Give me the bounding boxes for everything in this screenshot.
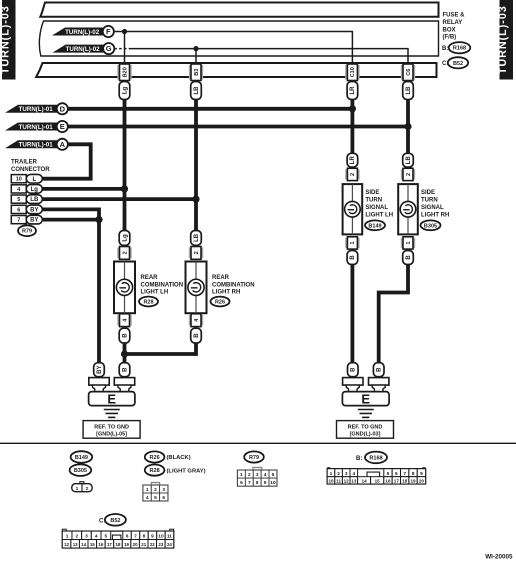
svg-text:6: 6: [240, 480, 243, 486]
label REF. TO GND [GND(L)-03]: [337, 421, 394, 439]
wire B from side light RH to right ground: [379, 265, 408, 363]
wire color B below side turn signal light RH: [403, 251, 414, 265]
wire color LR at side turn signal light LH: [347, 153, 358, 167]
wire color B below rear combination light RH: [191, 328, 202, 343]
svg-text:LB: LB: [194, 233, 200, 242]
svg-text:REF. TO GND: REF. TO GND: [348, 425, 383, 431]
svg-text:1: 1: [76, 486, 79, 492]
wire color LB at pin B3: [191, 82, 202, 100]
svg-text:1: 1: [146, 487, 149, 493]
wire color BY at ground: [94, 363, 105, 377]
svg-text:3: 3: [85, 534, 88, 540]
ground terminal left: [343, 378, 363, 392]
label REAR COMBINATION LIGHT LH: [141, 275, 184, 295]
pin B3 of fuse box: [189, 64, 203, 81]
connector ref C: B52 (view): [99, 514, 126, 526]
svg-text:3: 3: [162, 487, 165, 493]
svg-text:LIGHT LH: LIGHT LH: [365, 213, 393, 219]
junction LB: [192, 196, 199, 203]
connector view R26/R28 6-pin: [143, 482, 168, 501]
label TRAILER CONNECTOR: [11, 160, 50, 174]
svg-text:B305: B305: [424, 223, 437, 229]
wire trailer pin 5 LB to rear light RH column: [42, 197, 196, 201]
trailer connector ref R79: [18, 225, 36, 236]
svg-text:BOX: BOX: [443, 27, 456, 33]
svg-text:15: 15: [90, 542, 95, 547]
wire color B at ground: [348, 363, 359, 377]
svg-text:1: 1: [240, 472, 243, 478]
pin 1 of side turn signal light RH: [401, 237, 415, 249]
svg-text:TURN(L)-01: TURN(L)-01: [19, 106, 54, 113]
connector view R79 10-pin: [238, 467, 277, 486]
lamp side turn signal light LH B149: [343, 184, 363, 234]
wire B from rear light RH to junction: [125, 343, 197, 354]
wire F to B20 and C10: [114, 32, 352, 64]
svg-text:(LIGHT GRAY): (LIGHT GRAY): [167, 468, 206, 474]
svg-text:TURN(L)-01: TURN(L)-01: [19, 142, 54, 149]
svg-text:SIDE: SIDE: [421, 190, 435, 196]
svg-text:2: 2: [194, 251, 200, 254]
svg-text:11: 11: [336, 479, 341, 484]
wire color LB at pin C6: [403, 82, 414, 100]
svg-text:B20: B20: [122, 67, 128, 77]
svg-text:LIGHT RH: LIGHT RH: [212, 289, 240, 295]
svg-text:REAR: REAR: [141, 275, 159, 281]
ground hatch symbol: [104, 410, 120, 418]
connector ref R28 (LIGHT GRAY): [145, 465, 206, 476]
svg-text:SIGNAL: SIGNAL: [365, 205, 388, 211]
lamp rear combination light LH R28: [114, 262, 135, 314]
svg-text:B: B: [194, 333, 200, 338]
svg-text:5: 5: [105, 534, 108, 540]
junction G/B3: [193, 46, 198, 51]
svg-text:B: B: [377, 367, 383, 372]
svg-text:(F/B): (F/B): [443, 35, 457, 41]
svg-text:FUSE &: FUSE &: [443, 13, 466, 19]
connector ref B: R168 (view): [356, 452, 387, 464]
svg-text:8: 8: [256, 480, 259, 486]
svg-text:10: 10: [16, 177, 22, 183]
svg-text:8: 8: [412, 471, 415, 477]
ground hatch symbol: [358, 410, 374, 418]
separator line: [0, 442, 516, 444]
lamp rear combination light RH R26: [186, 262, 207, 314]
wire Lg from fuse box to rear combination light LH: [123, 99, 127, 231]
svg-text:6: 6: [126, 534, 129, 540]
junction F/B20: [122, 29, 127, 34]
pin 2 of rear combination light RH: [189, 247, 203, 260]
arrow tag A TURN(L)-01: [5, 139, 68, 150]
svg-text:LIGHT RH: LIGHT RH: [421, 213, 449, 219]
wire trailer pin 4 Lg to rear light LH column: [42, 187, 125, 191]
wire color B at ground: [119, 363, 130, 377]
label REF. TO GND [GND(L)-05]: [83, 421, 140, 439]
svg-text:10: 10: [328, 479, 334, 484]
svg-text:20: 20: [419, 479, 425, 484]
svg-text:TURN(L)-03: TURN(L)-03: [497, 5, 509, 74]
svg-text:15: 15: [375, 479, 381, 484]
fuse box top strip: [40, 3, 438, 17]
wire trailer pin 6 BY down to ground: [42, 209, 99, 362]
svg-text:RELAY: RELAY: [443, 20, 463, 26]
svg-text:7: 7: [17, 218, 20, 224]
svg-text:TURN(L)-02: TURN(L)-02: [65, 29, 100, 36]
svg-text:R28: R28: [143, 300, 153, 306]
connector ref R79 (view): [244, 451, 264, 462]
svg-text:REAR: REAR: [212, 275, 230, 281]
svg-text:TURN(L)-02: TURN(L)-02: [66, 46, 101, 53]
svg-text:BY: BY: [30, 208, 38, 214]
svg-text:7: 7: [134, 534, 137, 540]
wire LR from C10 down to side turn signal light LH: [350, 99, 354, 153]
wire color B at ground: [373, 363, 384, 377]
svg-text:D: D: [60, 104, 66, 113]
svg-text:F: F: [106, 27, 111, 36]
svg-text:2: 2: [350, 173, 356, 176]
svg-text:24: 24: [167, 542, 172, 547]
svg-text:4: 4: [146, 495, 149, 501]
svg-text:17: 17: [107, 542, 112, 547]
arrow tag E TURN(L)-01: [5, 121, 68, 132]
svg-text:SIDE: SIDE: [365, 190, 379, 196]
svg-text:R168: R168: [369, 455, 382, 461]
wire color Lg at pin B20: [119, 82, 130, 100]
svg-text:13: 13: [351, 479, 357, 484]
connector view R168 20-pin: [327, 467, 425, 484]
svg-text:10: 10: [158, 534, 164, 540]
svg-text:9: 9: [151, 534, 154, 540]
svg-text:REF. TO GND: REF. TO GND: [94, 425, 129, 431]
svg-text:3: 3: [256, 472, 259, 478]
ground terminal left: [89, 378, 109, 392]
wire B from rear light LH to ground junction: [123, 343, 127, 363]
wire color LR at pin C10: [347, 82, 358, 100]
lamp side turn signal light RH B305: [398, 184, 418, 234]
trailer connector pin 4 wire Lg: [11, 185, 42, 194]
svg-text:Lg: Lg: [122, 234, 128, 242]
ground terminal right: [369, 378, 389, 392]
svg-text:2: 2: [75, 534, 78, 540]
connector ref R28: [139, 297, 158, 307]
svg-text:16: 16: [98, 542, 103, 547]
connector view B149/B305 2-pin: [72, 482, 92, 492]
svg-text:B: B: [406, 255, 412, 260]
svg-text:1: 1: [350, 241, 356, 244]
arrow tag F TURN(L)-02: [52, 26, 114, 37]
svg-text:B:: B:: [356, 456, 362, 462]
svg-text:B: B: [122, 367, 128, 372]
svg-text:B52: B52: [110, 518, 120, 524]
svg-text:COMBINATION: COMBINATION: [141, 282, 184, 288]
svg-text:8: 8: [143, 534, 146, 540]
svg-text:18: 18: [116, 542, 121, 547]
svg-text:BY: BY: [30, 218, 38, 224]
svg-text:5: 5: [17, 197, 20, 203]
svg-text:B149: B149: [75, 455, 88, 461]
connector ref B: R168: [442, 42, 470, 53]
svg-text:14: 14: [362, 479, 368, 484]
svg-text:R79: R79: [22, 229, 32, 235]
svg-text:2: 2: [86, 486, 89, 492]
ground block E: [342, 391, 389, 406]
label REAR COMBINATION LIGHT RH: [212, 275, 255, 295]
wire LB from fuse box to rear combination light RH: [194, 99, 198, 231]
svg-text:3: 3: [345, 471, 348, 477]
wire color LB at rear combination light RH: [191, 231, 202, 246]
fuse box connector strip: [36, 63, 436, 77]
svg-text:5: 5: [387, 471, 390, 477]
svg-text:1: 1: [330, 471, 333, 477]
svg-text:CONNECTOR: CONNECTOR: [11, 167, 50, 173]
svg-text:22: 22: [150, 542, 155, 547]
svg-text:C10: C10: [350, 67, 356, 77]
wire G to B3 and C6: [114, 48, 130, 50]
svg-text:11: 11: [167, 534, 172, 540]
trailer connector pin 7 wire BY: [11, 215, 42, 224]
wire LB from C6 down to side turn signal light RH: [406, 99, 410, 153]
svg-text:LB: LB: [30, 197, 39, 203]
label SIDE TURN SIGNAL LIGHT RH: [421, 190, 449, 218]
left page banner TURN(L)-03: [0, 0, 16, 80]
svg-text:14: 14: [81, 542, 86, 547]
svg-text:B52: B52: [453, 61, 463, 67]
wire D to side light LH column: [68, 107, 352, 111]
svg-text:L: L: [32, 177, 36, 183]
svg-text:LR: LR: [350, 156, 356, 165]
svg-text:A: A: [60, 140, 66, 149]
svg-text:B149: B149: [368, 223, 381, 229]
svg-text:2: 2: [337, 471, 340, 477]
trailer connector pin 5 wire LB: [11, 195, 42, 204]
svg-text:SIGNAL: SIGNAL: [421, 205, 444, 211]
svg-text:R79: R79: [249, 455, 259, 461]
wire color LB at side turn signal light RH: [403, 153, 414, 167]
pin 2 of side turn signal light LH: [345, 168, 359, 180]
svg-text:9: 9: [264, 480, 267, 486]
svg-text:[GND(L)-05]: [GND(L)-05]: [96, 432, 127, 438]
junction D/LR: [349, 105, 356, 112]
svg-text:12: 12: [64, 542, 69, 547]
connector ref R26 (BLACK): [145, 451, 191, 462]
svg-text:2: 2: [154, 487, 157, 493]
junction rear lights ground: [121, 350, 128, 357]
svg-text:19: 19: [410, 479, 416, 484]
trailer connector pin 6 wire BY: [11, 205, 42, 214]
svg-text:LB: LB: [194, 86, 200, 95]
wire B from side light LH to right ground: [350, 265, 354, 363]
wire color Lg at rear combination light LH: [119, 231, 130, 246]
pin 2 of side turn signal light RH: [401, 168, 415, 180]
svg-text:7: 7: [403, 471, 406, 477]
pin 2 of rear combination light LH: [117, 247, 131, 260]
svg-text:LIGHT LH: LIGHT LH: [141, 289, 169, 295]
svg-text:G: G: [106, 44, 112, 53]
svg-text:E: E: [361, 391, 370, 406]
svg-text:13: 13: [73, 542, 78, 547]
svg-text:10: 10: [270, 480, 276, 486]
label FUSE & RELAY BOX (F/B): [443, 13, 466, 41]
svg-text:B: B: [351, 367, 357, 372]
connector ref B305: [421, 220, 441, 230]
ground block E: [89, 391, 135, 406]
svg-text:B3: B3: [194, 69, 200, 76]
wire color B below rear combination light LH: [119, 328, 130, 343]
svg-text:TURN: TURN: [365, 198, 382, 204]
svg-text:E: E: [107, 391, 116, 406]
svg-text:R168: R168: [453, 46, 466, 52]
label SIDE TURN SIGNAL LIGHT LH: [365, 190, 393, 218]
svg-text:WI-20005: WI-20005: [485, 553, 513, 560]
svg-text:B: B: [350, 255, 356, 260]
svg-text:LB: LB: [406, 86, 412, 95]
connector view B52 24-pin: [62, 529, 173, 548]
svg-text:COMBINATION: COMBINATION: [212, 282, 255, 288]
pin 1 of side turn signal light LH: [345, 237, 359, 249]
svg-text:C6: C6: [406, 69, 412, 76]
arrow tag D TURN(L)-01: [5, 103, 68, 114]
connector ref C: B52: [442, 57, 468, 68]
svg-text:TURN(L)-03: TURN(L)-03: [0, 5, 12, 74]
svg-text:5: 5: [272, 472, 275, 478]
fuse box body F/B: [39, 21, 438, 56]
svg-text:9: 9: [420, 471, 423, 477]
svg-text:TURN(L)-01: TURN(L)-01: [19, 124, 54, 131]
svg-text:6: 6: [17, 207, 20, 213]
svg-text:LB: LB: [406, 156, 412, 165]
wire E to side light RH column: [68, 125, 408, 129]
trailer connector pin 10 wire L: [11, 174, 42, 183]
svg-text:20: 20: [133, 542, 138, 547]
svg-text:4: 4: [352, 471, 355, 477]
svg-text:19: 19: [124, 542, 129, 547]
svg-text:2: 2: [406, 173, 412, 176]
pin C6 of fuse box: [401, 64, 415, 81]
svg-text:[GND(L)-03]: [GND(L)-03]: [350, 432, 381, 438]
svg-text:23: 23: [158, 542, 163, 547]
pin B20 of fuse box: [117, 64, 131, 81]
svg-text:B305: B305: [74, 468, 87, 474]
svg-text:21: 21: [141, 542, 146, 547]
connector ref B149 (view): [71, 451, 93, 463]
svg-text:B:: B:: [442, 46, 448, 52]
connector ref B149: [365, 220, 385, 230]
wire color B below side turn signal light LH: [347, 251, 358, 265]
svg-text:(BLACK): (BLACK): [167, 455, 191, 461]
svg-text:4: 4: [264, 472, 267, 478]
wire A to trailer pin 10: [42, 144, 91, 178]
arrow tag G TURN(L)-02: [53, 43, 115, 54]
svg-text:E: E: [60, 122, 65, 131]
svg-text:17: 17: [394, 479, 400, 484]
svg-text:2: 2: [248, 472, 251, 478]
svg-text:6: 6: [395, 471, 398, 477]
svg-text:B: B: [122, 333, 128, 338]
svg-text:R28: R28: [150, 468, 160, 474]
svg-text:4: 4: [95, 534, 98, 540]
svg-text:R26: R26: [150, 455, 160, 461]
connector ref R26: [211, 297, 230, 307]
svg-text:TURN: TURN: [421, 198, 438, 204]
svg-text:R26: R26: [215, 300, 225, 306]
pin 4 of rear combination light LH: [117, 314, 131, 327]
junction BY: [95, 216, 102, 223]
right page banner TURN(L)-03: [497, 0, 513, 80]
svg-text:7: 7: [248, 480, 251, 486]
svg-text:Lg: Lg: [31, 187, 39, 193]
svg-text:Lg: Lg: [122, 87, 128, 95]
svg-text:6: 6: [162, 495, 165, 501]
svg-text:18: 18: [402, 479, 408, 484]
svg-text:BY: BY: [97, 366, 103, 374]
svg-text:16: 16: [385, 479, 391, 484]
pin 4 of rear combination light RH: [189, 314, 203, 327]
svg-text:1: 1: [406, 241, 412, 244]
ground terminal right: [114, 378, 134, 392]
svg-text:5: 5: [154, 495, 157, 501]
pin C10 of fuse box: [345, 64, 359, 81]
junction Lg: [121, 185, 128, 192]
svg-text:LR: LR: [350, 86, 356, 95]
svg-text:TRAILER: TRAILER: [11, 160, 38, 166]
junction E/LB: [404, 123, 411, 130]
connector ref B305 (view): [70, 464, 92, 476]
svg-text:1: 1: [66, 534, 69, 540]
svg-text:2: 2: [122, 251, 128, 254]
wire trailer pin 7 BY join: [42, 218, 99, 222]
svg-text:12: 12: [344, 479, 350, 484]
